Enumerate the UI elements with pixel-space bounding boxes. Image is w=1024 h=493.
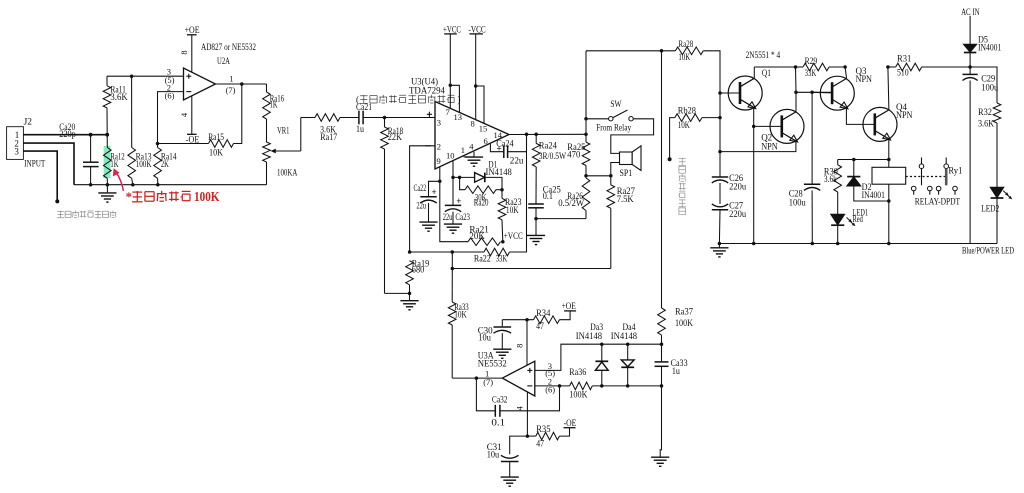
svg-text:3.6k: 3.6k [824, 174, 837, 184]
svg-text:LED2: LED2 [981, 203, 999, 213]
svg-text:47: 47 [536, 438, 544, 448]
svg-text:10u: 10u [478, 333, 491, 343]
power +OE (servo) [562, 301, 577, 311]
svg-text:INPUT: INPUT [24, 159, 46, 169]
speaker SP1 [620, 146, 642, 178]
diode Da4 IN4148 [611, 322, 638, 386]
diode D2 IN4001 [847, 160, 890, 203]
svg-text:1K: 1K [110, 159, 118, 169]
op-amp U3A NE5532 [478, 351, 556, 396]
wire to TDA7294 +input [385, 117, 436, 119]
svg-text:33K: 33K [805, 68, 817, 78]
red note: suggest replacing with 100K [126, 189, 220, 205]
svg-text:1: 1 [461, 145, 465, 155]
svg-text:From Relay: From Relay [596, 122, 631, 132]
resistor Ra11 3.6K [103, 76, 128, 135]
label Blue/POWER LED [962, 246, 1014, 256]
svg-text:1u: 1u [356, 124, 364, 134]
svg-text:7: 7 [446, 107, 450, 117]
svg-text:3.6K: 3.6K [978, 119, 994, 129]
ground (servo ref) [651, 386, 669, 466]
capacitor Ca33 1u [655, 344, 689, 386]
svg-text:220u: 220u [729, 209, 746, 219]
resistor Ra19 680 [385, 259, 430, 296]
wire DC-sense line [586, 49, 675, 53]
resistor R35 47 [527, 424, 569, 448]
switch SW (from relay) [586, 99, 654, 153]
svg-text:220u: 220u [729, 181, 746, 191]
svg-text:22K: 22K [388, 132, 403, 142]
svg-text:Ra22: Ra22 [474, 254, 491, 264]
svg-text:15: 15 [479, 123, 488, 133]
svg-text:Ry1: Ry1 [948, 166, 962, 176]
wire U2A +input [107, 75, 184, 77]
svg-text:100K: 100K [569, 389, 588, 399]
svg-text:4: 4 [179, 112, 189, 117]
svg-text:1u: 1u [672, 366, 680, 376]
svg-text:Ra15: Ra15 [208, 132, 224, 142]
resistor Ra13 100K [128, 74, 152, 184]
svg-text:22u: 22u [443, 212, 453, 222]
resistor Ra21 20K [468, 225, 505, 246]
diode Da3 IN4148 [576, 322, 608, 386]
wire Q2 emitter [720, 141, 796, 152]
amplifier U3 TDA7294 [409, 77, 509, 169]
svg-text:13: 13 [454, 112, 463, 122]
ground (TDA pins 1,4) [464, 152, 484, 166]
wire relay node [838, 158, 889, 162]
resistor Ra20 30K [460, 177, 504, 207]
svg-text:TDA7294: TDA7294 [409, 86, 445, 96]
resistor Ra12 1K [104, 135, 125, 185]
svg-text:9: 9 [437, 156, 441, 166]
highlight on Ra12 (green) [104, 146, 111, 178]
transistor Q3 NPN [812, 66, 872, 110]
wire output riser to relay switch [584, 51, 588, 135]
svg-text:IN4148: IN4148 [611, 331, 638, 341]
svg-text:7.5K: 7.5K [617, 194, 634, 204]
capacitor Ca21 1u [356, 102, 385, 134]
wire TDA pin9/mute [438, 167, 468, 242]
svg-text:(: ( [356, 94, 359, 104]
resistor Ra18 22K [381, 116, 404, 294]
capacitor Ca25 0.1 [528, 185, 561, 221]
svg-text:Ra36: Ra36 [569, 367, 586, 377]
svg-text:(7): (7) [226, 85, 236, 95]
terminal AC IN [961, 7, 980, 44]
connector J2 [7, 117, 46, 168]
svg-text:10K: 10K [678, 120, 691, 130]
svg-text:Ra17: Ra17 [320, 132, 337, 142]
svg-text:Ca23: Ca23 [455, 212, 470, 222]
svg-text:Red: Red [853, 214, 864, 224]
svg-text:47: 47 [536, 321, 544, 331]
svg-text:IN4148: IN4148 [486, 167, 513, 177]
svg-text:510: 510 [897, 67, 909, 77]
svg-text:100u: 100u [981, 83, 998, 93]
transistor Q1 (2N5551) [720, 68, 771, 110]
resistor Rb28 10K (other channel) [668, 106, 720, 162]
wire U3A +input net [535, 342, 663, 370]
ground (input) [98, 185, 116, 202]
svg-text:Ca22: Ca22 [414, 183, 427, 193]
svg-text:Q1: Q1 [762, 68, 771, 78]
resistor Ra36 100K [535, 367, 663, 399]
LED LED1 Red [831, 208, 868, 244]
power +VCC [443, 24, 461, 113]
power -OE (U2A pin 4) [179, 96, 200, 144]
svg-text:8: 8 [179, 50, 189, 54]
transistor Q2 NPN [754, 109, 804, 151]
wire TDA pin10/stby [451, 161, 455, 206]
capacitor C29 100u [963, 67, 999, 244]
svg-text:470: 470 [567, 150, 580, 160]
svg-text:AC IN: AC IN [961, 7, 980, 17]
svg-text:Rb28: Rb28 [678, 106, 697, 116]
svg-text:4: 4 [515, 405, 525, 410]
wire TDA -input net [408, 146, 435, 254]
resistor R34 47 [502, 308, 570, 331]
svg-text:Ra20: Ra20 [474, 197, 489, 207]
svg-text:100K: 100K [194, 190, 220, 205]
resistor Ra26 0.5/2W [558, 176, 590, 219]
resistor R31 510 [888, 53, 970, 77]
wire J2 pin1 to input node [23, 133, 109, 137]
svg-text:220p: 220p [59, 129, 76, 139]
resistor R32 3.6K [970, 67, 1001, 187]
svg-text:R29: R29 [805, 56, 818, 66]
svg-text:AD827 or NE5532: AD827 or NE5532 [201, 42, 256, 52]
svg-text:+VCC: +VCC [443, 24, 461, 34]
resistor Ra27 7.5K [607, 176, 635, 269]
wire J2 pin3 stub to other channel [23, 151, 59, 203]
svg-text:R31: R31 [897, 53, 911, 63]
svg-text:SP1: SP1 [620, 168, 633, 178]
capacitor Ca22 22u [414, 181, 440, 231]
note: input from other channel (gray) [57, 211, 116, 218]
capacitor Ca23 22u [443, 196, 471, 233]
ground (Ra19) [400, 293, 418, 309]
svg-text:R34: R34 [536, 308, 551, 318]
resistor Ra17 3.6K [301, 114, 359, 142]
svg-text:6: 6 [484, 136, 488, 146]
svg-text:+: + [456, 196, 461, 206]
svg-text:*: * [126, 189, 133, 204]
capacitor C31 10u [487, 436, 528, 477]
svg-text:1K: 1K [270, 100, 278, 110]
svg-text:680: 680 [412, 264, 425, 274]
svg-text:+OE: +OE [185, 25, 200, 35]
svg-text:+VCC: +VCC [504, 231, 523, 241]
svg-text:0.1: 0.1 [491, 417, 505, 427]
svg-text:VR1: VR1 [277, 125, 290, 135]
svg-text:Ca32: Ca32 [492, 395, 508, 405]
svg-text:2N5551 * 4: 2N5551 * 4 [746, 50, 781, 60]
svg-text:NPN: NPN [761, 142, 778, 152]
LED LED2 blue/power [981, 188, 1012, 244]
resistor Ra25 470 [567, 134, 590, 177]
ground (Zobel) [527, 219, 545, 245]
resistor R30 3.6k [824, 160, 842, 215]
svg-text:100K: 100K [675, 318, 693, 328]
ground (C31) [501, 477, 519, 486]
svg-text:2: 2 [437, 141, 441, 151]
svg-text:2K: 2K [161, 159, 169, 169]
wire U3A output [452, 376, 502, 380]
svg-text:IN4148: IN4148 [576, 331, 603, 341]
svg-text:3: 3 [437, 118, 441, 128]
wire Q3 emitter to Q4 base [846, 108, 874, 125]
svg-text:-OE: -OE [564, 418, 577, 428]
svg-text:100KA: 100KA [277, 167, 298, 177]
resistor Ra37 100K [658, 51, 694, 344]
capacitor Ca32 0.1 (integrator) [476, 378, 559, 427]
relay contacts RELAY-DPDT [906, 158, 961, 207]
svg-text:4: 4 [469, 141, 474, 151]
capacitor C30 10u [478, 320, 511, 349]
wire Q-network node [796, 91, 832, 95]
wire Q2 collector [794, 67, 798, 112]
svg-text:10: 10 [446, 150, 455, 160]
power +VCC (mute node) [504, 231, 523, 241]
svg-text:10K: 10K [454, 309, 467, 319]
power -VCC [468, 24, 485, 124]
svg-text:R32: R32 [978, 107, 992, 117]
resistor R29 33K [796, 56, 847, 78]
op-amp U2A AD827/NE5532 [165, 42, 256, 100]
svg-text:10u: 10u [487, 449, 500, 459]
svg-text:100K: 100K [136, 159, 152, 169]
label 2N5551 x4 [746, 50, 781, 60]
capacitor C28 100u [789, 92, 821, 243]
note: output of other channel (gray, vertical) [678, 158, 686, 215]
svg-text:Ca24: Ca24 [496, 139, 514, 149]
resistor Ra16 1K [263, 84, 285, 119]
svg-text:3R/0.5W: 3R/0.5W [539, 151, 567, 161]
wire U3A pin8 stem [514, 320, 527, 366]
svg-text:3: 3 [14, 147, 19, 157]
svg-text:Blue/POWER LED: Blue/POWER LED [962, 246, 1014, 256]
wire Q4 collector [886, 65, 890, 110]
svg-text:0.1: 0.1 [543, 191, 553, 201]
capacitor C27 220u [712, 201, 747, 244]
svg-text:8: 8 [471, 119, 475, 129]
svg-text:10K: 10K [678, 52, 690, 62]
svg-text:0.5/2W: 0.5/2W [558, 198, 584, 208]
svg-text:8: 8 [514, 344, 524, 348]
relay Ry1 coil [872, 160, 962, 244]
diode D1 IN4148 [453, 159, 512, 189]
capacitor C26 220u [712, 173, 747, 204]
svg-text:+OE: +OE [562, 301, 577, 311]
svg-text:10K: 10K [209, 147, 223, 157]
power +OE (U2A pin 8) [179, 25, 200, 72]
svg-text:NPN: NPN [896, 110, 913, 120]
potentiometer VR1 100KA [263, 118, 301, 185]
wire U2A output [216, 82, 267, 86]
resistor Ra24 3R/0.5W (Zobel) [532, 134, 566, 204]
resistor Ra15 10K (feedback) [158, 84, 242, 157]
resistor Ra28 10K [675, 39, 721, 177]
wire Q1 collector [754, 65, 797, 78]
wire protection ground bus [718, 242, 997, 246]
resistor Ra33 10K [448, 269, 469, 379]
ground (protection bus) [710, 244, 728, 257]
wire U3A pin4 stem [515, 392, 529, 438]
wire Zobel return [536, 218, 586, 220]
wire sense node to servo [451, 250, 455, 270]
svg-text:Ra24: Ra24 [539, 141, 558, 151]
resistor Ra14 2K [154, 142, 177, 185]
svg-text:J2: J2 [24, 117, 33, 127]
svg-text:NPN: NPN [856, 74, 873, 84]
red arrow annotation [116, 172, 123, 191]
capacitor Ca24 22u (bootstrap) [490, 134, 526, 165]
svg-text:RELAY-DPDT: RELAY-DPDT [915, 197, 961, 207]
svg-text:20K: 20K [469, 231, 485, 241]
svg-text:+: + [432, 187, 437, 197]
wire U2A -input [158, 92, 184, 144]
diode D5 IN4001 [964, 34, 1001, 68]
svg-text:U2A: U2A [217, 56, 230, 66]
wire speaker return [586, 163, 620, 178]
svg-text:33K: 33K [496, 254, 508, 264]
wire J2 pin2 to ground bus [23, 143, 74, 185]
resistor Ra23 10K [498, 190, 522, 242]
svg-text:IN4001: IN4001 [978, 42, 1001, 52]
wire Q1 emitter to bus [752, 108, 756, 244]
svg-text:3.6K: 3.6K [110, 92, 128, 102]
capacitor Ca20 220p [59, 122, 98, 185]
resistor Ra22 33K (feedback) [410, 134, 527, 263]
power -OE (servo) [564, 418, 577, 428]
note: can be removed and jumpered (black) [356, 94, 461, 104]
wire Q3 collector [845, 67, 847, 79]
svg-text:NE5532: NE5532 [478, 359, 507, 369]
wire TDA output node [509, 133, 588, 137]
svg-text:SW: SW [610, 99, 622, 109]
svg-text:22u: 22u [416, 200, 426, 210]
svg-text:IN4001: IN4001 [862, 190, 885, 200]
svg-text:Ra37: Ra37 [675, 307, 693, 317]
svg-text:-VCC: -VCC [468, 24, 485, 34]
wire Q4 emitter to relay node [887, 139, 891, 161]
svg-text:10K: 10K [506, 205, 519, 215]
svg-text:1: 1 [229, 73, 233, 83]
svg-text:R35: R35 [536, 424, 551, 434]
svg-text:100u: 100u [789, 198, 806, 208]
svg-text:Ra28: Ra28 [678, 39, 693, 49]
transistor Q4 NPN [863, 102, 913, 141]
wire ground bus [74, 183, 267, 187]
svg-text:-OE: -OE [186, 134, 200, 144]
svg-text:22u: 22u [510, 155, 524, 165]
wire servo sense line [452, 268, 611, 270]
ground (C30) [493, 349, 511, 358]
